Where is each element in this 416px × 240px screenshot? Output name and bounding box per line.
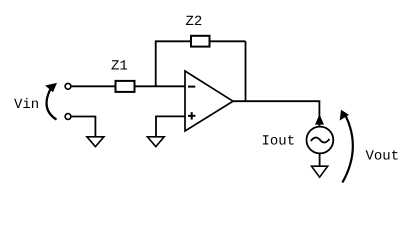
svg-text:Iout: Iout bbox=[262, 134, 296, 150]
wire: non-inverting input to ground bbox=[156, 116, 185, 136]
vout polarity arrow bbox=[340, 110, 353, 183]
node: bottom input terminal bbox=[65, 114, 71, 120]
op-amp U1 bbox=[185, 71, 233, 131]
impedance Z2 bbox=[191, 36, 210, 47]
node: top input terminal bbox=[65, 83, 71, 89]
ground: at bottom input terminal bbox=[87, 137, 104, 147]
wire: Z1 to op-amp inverting input bbox=[135, 85, 185, 87]
wire: bottom terminal to ground bbox=[71, 117, 95, 137]
svg-text:Vin: Vin bbox=[14, 97, 39, 113]
impedance Z1 bbox=[116, 81, 135, 92]
svg-text:Z1: Z1 bbox=[111, 59, 128, 75]
current direction arrow bbox=[315, 114, 324, 124]
svg-text:Z2: Z2 bbox=[186, 14, 203, 30]
current source Iout bbox=[307, 127, 334, 154]
wire: Z2 to feedback right vertical bbox=[210, 40, 246, 42]
wire: top terminal to Z1 bbox=[71, 85, 115, 87]
vin polarity arrow bbox=[45, 83, 57, 120]
wire: feedback left vertical from junction bbox=[156, 41, 191, 86]
wire: op-amp output to current source bbox=[233, 101, 319, 126]
ground: at op-amp non-inverting input bbox=[147, 137, 164, 147]
wire: current source to ground bbox=[319, 153, 321, 166]
wire: feedback right vertical to output bbox=[245, 41, 247, 101]
ground: below current source bbox=[312, 166, 328, 177]
svg-text:Vout: Vout bbox=[366, 149, 400, 165]
